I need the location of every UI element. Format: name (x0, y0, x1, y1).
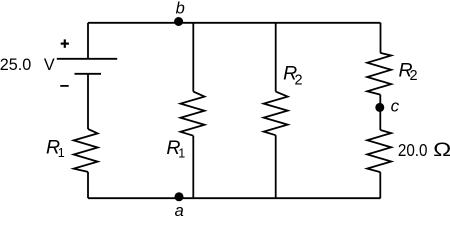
svg-text:c: c (391, 97, 400, 116)
svg-text:a: a (175, 202, 184, 217)
svg-text:b: b (176, 0, 185, 17)
svg-text:20.0: 20.0 (398, 140, 428, 160)
svg-text:2: 2 (295, 72, 303, 88)
svg-text:1: 1 (58, 146, 65, 160)
svg-text:2: 2 (409, 68, 417, 84)
svg-text:25.0: 25.0 (0, 56, 31, 74)
svg-text:V: V (44, 56, 55, 74)
svg-text:1: 1 (178, 147, 185, 161)
svg-text:Ω: Ω (433, 139, 450, 161)
